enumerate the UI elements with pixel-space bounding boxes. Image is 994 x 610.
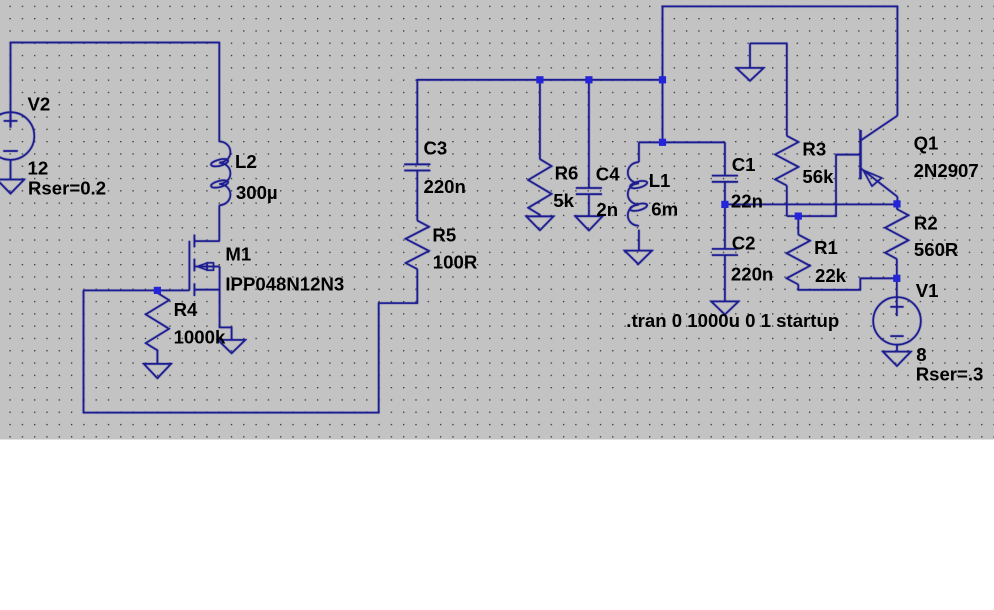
- ground at R4: [144, 364, 171, 378]
- svg-text:V2: V2: [28, 94, 51, 115]
- wire M1 source to ground: [220, 290, 232, 340]
- inductor L2: [219, 141, 230, 205]
- svg-text:220n: 220n: [731, 263, 773, 284]
- svg-text:22k: 22k: [815, 265, 847, 286]
- wire R3 top lead: [750, 43, 787, 135]
- wire R6 tap: [539, 80, 541, 159]
- wire L2 to M1 drain: [218, 205, 220, 241]
- svg-text:.tran 0 1000u 0 1 startup: .tran 0 1000u 0 1 startup: [626, 310, 839, 331]
- wire R1 bottom to V1 node: [798, 278, 897, 290]
- ground at C2: [711, 301, 738, 314]
- svg-text:Q1: Q1: [914, 132, 939, 153]
- transistor Q1 base bar: [859, 130, 861, 179]
- resistor R4: [146, 293, 169, 364]
- node junction 7: [795, 213, 802, 220]
- transistor Q1 base lead: [836, 154, 861, 156]
- node junction 9: [893, 275, 900, 282]
- wire C1 top lead: [724, 142, 726, 175]
- svg-text:IPP048N12N3: IPP048N12N3: [225, 274, 344, 295]
- svg-text:L2: L2: [235, 151, 257, 172]
- capacitor C3: [404, 163, 430, 165]
- inductor L1: [628, 162, 639, 226]
- ground at R6: [526, 216, 553, 230]
- svg-text:R5: R5: [432, 225, 456, 246]
- transistor Q1 emitter: [861, 168, 898, 196]
- svg-text:2n: 2n: [596, 199, 618, 220]
- transistor Q1 emitter arrow: [863, 170, 881, 186]
- wire base net: [787, 155, 861, 217]
- wire tap node to emitter node: [725, 203, 897, 205]
- svg-text:8: 8: [916, 344, 926, 365]
- svg-text:560R: 560R: [914, 239, 959, 260]
- capacitor C2: [712, 248, 738, 250]
- svg-text:R1: R1: [814, 237, 838, 258]
- ground at L1: [625, 251, 652, 265]
- resistor R6: [528, 159, 551, 216]
- svg-text:22n: 22n: [731, 190, 763, 211]
- wire emitter to R2: [896, 197, 898, 209]
- capacitor C4: [576, 187, 602, 189]
- wire C2 bottom to ground: [724, 255, 726, 301]
- svg-text:5k: 5k: [553, 190, 574, 211]
- wire ground stub top-right: [749, 43, 751, 68]
- resistor R2: [885, 204, 908, 259]
- ground top-right: [736, 68, 763, 81]
- svg-text:C1: C1: [732, 154, 756, 175]
- wire C4 tap: [588, 80, 590, 189]
- svg-text:V1: V1: [916, 280, 939, 301]
- voltage source V2: [0, 112, 34, 160]
- svg-text:12: 12: [28, 157, 49, 178]
- svg-text:C4: C4: [596, 163, 620, 184]
- svg-text:Rser=.3: Rser=.3: [916, 364, 984, 385]
- svg-text:L1: L1: [649, 170, 671, 191]
- svg-text:R2: R2: [914, 213, 938, 234]
- wire R3 bottom to base net: [786, 186, 788, 217]
- svg-text:R6: R6: [555, 163, 579, 184]
- wire R1 top lead: [797, 216, 799, 235]
- node junction 8: [893, 200, 900, 207]
- mosfet M1 channel dashes: [193, 235, 195, 296]
- svg-text:C3: C3: [424, 138, 448, 159]
- wire C2 top lead: [724, 204, 726, 248]
- wire top-right rail to Q1 collector: [663, 6, 898, 142]
- wire L1 bottom to ground: [638, 230, 640, 251]
- wire L1 top lead: [638, 142, 640, 162]
- wire C1 bottom to tap node: [724, 182, 726, 205]
- svg-text:M1: M1: [225, 244, 251, 265]
- transistor Q1 collector: [861, 116, 898, 141]
- wire bus C3 top rail: [417, 80, 662, 164]
- node junction 3: [585, 76, 592, 83]
- svg-text:220n: 220n: [424, 176, 466, 197]
- ground at V1: [883, 352, 911, 366]
- svg-text:300µ: 300µ: [236, 182, 278, 203]
- capacitor C1: [712, 175, 738, 177]
- node junction 5: [659, 139, 666, 146]
- svg-text:56k: 56k: [802, 166, 834, 187]
- wire gate node to M1 gate: [84, 289, 190, 291]
- node junction 6: [721, 201, 728, 208]
- resistor R5: [406, 221, 429, 270]
- wire V2 minus to ground: [10, 160, 12, 180]
- svg-text:1000k: 1000k: [174, 327, 226, 348]
- svg-text:6m: 6m: [651, 199, 678, 220]
- mosfet M1 gate bar: [188, 241, 190, 291]
- mosfet M1 body leg with arrow: [194, 266, 219, 268]
- svg-text:R3: R3: [802, 139, 826, 160]
- svg-text:Rser=0.2: Rser=0.2: [28, 178, 106, 199]
- svg-text:2N2907: 2N2907: [914, 160, 979, 181]
- mosfet M1 source leg: [194, 267, 219, 290]
- node junction 2: [536, 76, 543, 83]
- schematic canvas background: [0, 0, 994, 440]
- svg-text:100R: 100R: [433, 252, 478, 273]
- node junction 1: [154, 287, 161, 294]
- svg-text:C2: C2: [732, 233, 756, 254]
- voltage source V1: [873, 297, 921, 345]
- wire R2 bottom to V1: [896, 259, 898, 278]
- mosfet M1 drain leg: [194, 240, 219, 242]
- svg-text:R4: R4: [174, 299, 198, 320]
- resistor R1: [787, 235, 810, 285]
- wire feedback loop left-bottom: [84, 269, 418, 413]
- ground at C4: [575, 216, 602, 230]
- resistor R3: [775, 136, 798, 186]
- ground at M1 source: [218, 340, 245, 353]
- wire tank top: [639, 141, 725, 143]
- node junction 4: [659, 76, 666, 83]
- wire top-left from V2 to L2: [11, 43, 220, 142]
- ground at V2: [0, 180, 24, 194]
